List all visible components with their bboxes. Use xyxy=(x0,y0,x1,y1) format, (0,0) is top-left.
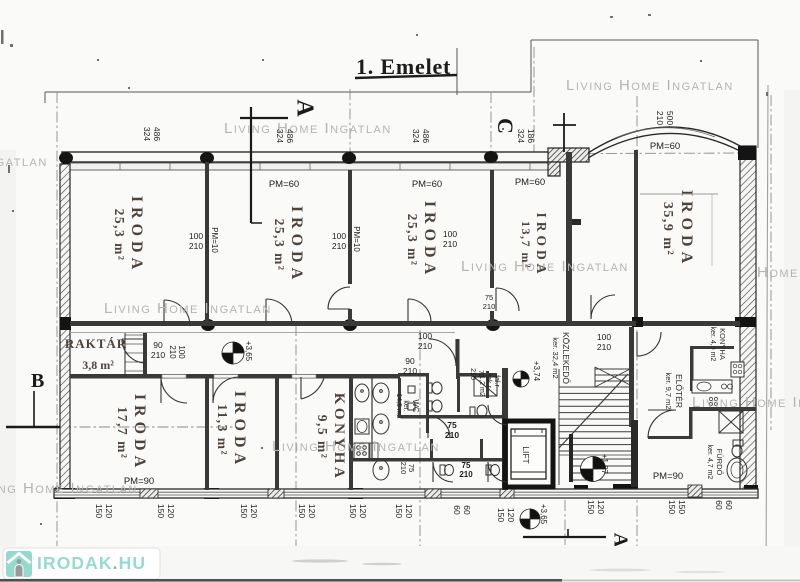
svg-text:210: 210 xyxy=(459,470,473,479)
svg-text:75: 75 xyxy=(485,293,493,302)
svg-text:ker.: ker. xyxy=(402,400,409,411)
svg-text:tak.r: tak.r xyxy=(485,374,492,388)
svg-text:486: 486 xyxy=(152,127,162,141)
svg-text:RAKTÁR: RAKTÁR xyxy=(65,336,127,351)
svg-text:486: 486 xyxy=(421,129,431,143)
svg-text:ker. 9,7 m2: ker. 9,7 m2 xyxy=(664,372,673,409)
svg-text:150: 150 xyxy=(348,504,358,518)
svg-text:210: 210 xyxy=(332,241,346,251)
svg-text:IRODA: IRODA xyxy=(128,196,145,274)
checkerboard survey points xyxy=(222,342,606,529)
svg-text:120: 120 xyxy=(307,504,317,518)
sanitary inner doors xyxy=(428,416,450,438)
svg-text:150: 150 xyxy=(239,504,249,518)
svg-text:Living Home Ingatlan: Living Home Ingatlan xyxy=(224,120,392,137)
small squares (bidet etc.) xyxy=(408,386,415,393)
svg-text:150: 150 xyxy=(496,508,506,522)
svg-text:100: 100 xyxy=(332,231,346,241)
svg-text:210: 210 xyxy=(168,345,177,359)
svg-text:210: 210 xyxy=(403,366,417,376)
svg-text:120: 120 xyxy=(166,504,176,518)
room4 door in partition xyxy=(496,288,519,311)
svg-text:Living Home Ingatlan: Living Home Ingatlan xyxy=(692,394,800,411)
svg-text:WC: WC xyxy=(411,399,420,413)
svg-text:IRODA: IRODA xyxy=(231,391,248,469)
logo icon xyxy=(6,551,32,577)
svg-text:FÜRDŐ: FÜRDŐ xyxy=(715,449,724,476)
rotated top pairs xyxy=(142,127,162,141)
svg-text:324: 324 xyxy=(275,129,285,143)
svg-text:LIFT: LIFT xyxy=(521,446,531,463)
bottom outer wall band with windows xyxy=(54,485,758,498)
partitions between upper rooms xyxy=(205,162,209,321)
svg-text:210: 210 xyxy=(151,350,165,360)
door in partition room2/3 xyxy=(328,287,350,309)
stairwell xyxy=(559,367,634,485)
room 17,7 door xyxy=(161,377,187,403)
svg-text:120: 120 xyxy=(404,504,414,518)
konyha door xyxy=(301,378,324,399)
svg-text:120: 120 xyxy=(358,504,368,518)
svg-text:60: 60 xyxy=(714,500,724,510)
svg-text:A: A xyxy=(609,533,631,548)
plot boundary lines xyxy=(45,40,758,148)
konyha 4,9 fixtures xyxy=(692,362,744,406)
level marks xyxy=(244,341,253,362)
svg-text:Home Ingatlan: Home Ingatlan xyxy=(757,264,800,281)
svg-text:PM=10: PM=10 xyxy=(210,227,219,253)
svg-text:150: 150 xyxy=(297,504,307,518)
svg-text:IRODA: IRODA xyxy=(131,394,148,472)
svg-text:C: C xyxy=(493,118,518,134)
raktar walls xyxy=(125,333,147,377)
sanitary block walls xyxy=(353,339,508,490)
svg-text:IRODA: IRODA xyxy=(678,190,695,268)
svg-text:PM=60: PM=60 xyxy=(515,177,545,188)
svg-text:PM=60: PM=60 xyxy=(412,179,442,190)
sanitary fixtures: sinks xyxy=(355,377,500,480)
svg-text:60: 60 xyxy=(724,500,734,510)
svg-text:100: 100 xyxy=(177,345,186,359)
footer bar xyxy=(0,546,800,582)
corridor to elotér door xyxy=(637,332,661,356)
right outer wall xyxy=(740,146,756,490)
svg-text:100: 100 xyxy=(443,229,457,239)
svg-text:fal.r: fal.r xyxy=(493,375,500,387)
top wall beam band xyxy=(62,152,549,170)
section markers xyxy=(6,107,606,537)
svg-text:210: 210 xyxy=(445,430,459,440)
svg-text:+3,74: +3,74 xyxy=(532,361,541,382)
title xyxy=(355,54,457,79)
svg-text:90: 90 xyxy=(405,356,415,366)
closet with diagonal xyxy=(474,377,497,396)
svg-text:25,3 m²: 25,3 m² xyxy=(112,209,127,262)
svg-text:A: A xyxy=(291,99,317,117)
svg-text:60: 60 xyxy=(452,505,462,515)
svg-text:Living Home Ingatlan: Living Home Ingatlan xyxy=(0,153,48,170)
svg-text:PM=60: PM=60 xyxy=(650,141,680,152)
svg-text:120: 120 xyxy=(249,504,259,518)
svg-text:9,5 m²: 9,5 m² xyxy=(315,415,330,460)
lower partitions xyxy=(205,378,209,490)
svg-text:25,3 m²: 25,3 m² xyxy=(405,214,420,267)
svg-text:500: 500 xyxy=(665,111,675,125)
left outer wall xyxy=(60,164,70,490)
svg-text:14,5 m2: 14,5 m2 xyxy=(395,393,402,418)
svg-text:150: 150 xyxy=(677,500,687,514)
svg-text:150: 150 xyxy=(94,504,104,518)
svg-text:+3,65: +3,65 xyxy=(539,504,548,525)
svg-text:150: 150 xyxy=(394,504,404,518)
svg-text:25,3 m²: 25,3 m² xyxy=(272,219,287,272)
svg-text:210: 210 xyxy=(189,241,203,251)
svg-text:KÖZLEKEDŐ: KÖZLEKEDŐ xyxy=(561,332,571,384)
svg-text:60: 60 xyxy=(462,505,472,515)
konyha 9,5 kitchen fixtures xyxy=(354,443,378,459)
svg-text:150: 150 xyxy=(667,500,677,514)
svg-text:Living Home Ingatlan: Living Home Ingatlan xyxy=(104,300,272,317)
toilets xyxy=(427,383,432,393)
svg-text:+3,65: +3,65 xyxy=(244,341,253,362)
svg-text:75: 75 xyxy=(462,461,471,470)
svg-text:KONYHA: KONYHA xyxy=(718,328,727,360)
svg-text:210: 210 xyxy=(655,111,665,125)
room1 corridor door xyxy=(164,300,190,326)
section letters xyxy=(31,99,631,547)
svg-text:Living Home Ingatlan: Living Home Ingatlan xyxy=(566,77,734,94)
svg-text:324: 324 xyxy=(142,127,152,141)
svg-text:KONYHA: KONYHA xyxy=(331,393,347,482)
room1 door to corridor xyxy=(266,299,292,325)
svg-text:ker. 4,7 m2: ker. 4,7 m2 xyxy=(706,445,713,480)
svg-text:ELŐTÉR: ELŐTÉR xyxy=(674,374,684,408)
svg-text:IRODA: IRODA xyxy=(421,201,438,279)
room3 door to corridor xyxy=(408,299,431,322)
svg-text:IRODA: IRODA xyxy=(534,212,549,277)
svg-text:PM=10: PM=10 xyxy=(352,226,361,252)
corridor south wall xyxy=(70,374,400,379)
room 11,3 door xyxy=(213,377,239,403)
svg-text:ker. 32,4 m2: ker. 32,4 m2 xyxy=(551,337,560,378)
svg-text:150: 150 xyxy=(586,500,596,514)
bottom scan edge xyxy=(0,579,562,582)
svg-text:3,8 m²: 3,8 m² xyxy=(82,358,114,372)
top wall hatched pier left of bay xyxy=(548,148,589,162)
svg-text:13,7 m²: 13,7 m² xyxy=(519,221,533,269)
elotér / konyha / fürdő walls xyxy=(648,346,756,439)
svg-text:210: 210 xyxy=(418,341,432,351)
door dims stacked xyxy=(189,231,203,251)
door arcs xyxy=(122,287,676,482)
svg-text:210: 210 xyxy=(597,342,611,352)
svg-text:210: 210 xyxy=(443,239,457,249)
svg-text:100: 100 xyxy=(597,332,611,342)
svg-text:B: B xyxy=(31,370,44,392)
svg-text:100: 100 xyxy=(189,231,203,241)
svg-text:120: 120 xyxy=(104,504,114,518)
right scan edge line xyxy=(766,85,768,582)
svg-text:90: 90 xyxy=(153,340,163,350)
door gaps over south wall xyxy=(162,375,316,379)
svg-text:120: 120 xyxy=(596,500,606,514)
corridor north wall xyxy=(70,321,636,326)
svg-text:ker. 4,9 m2: ker. 4,9 m2 xyxy=(709,327,716,362)
svg-text:PM=60: PM=60 xyxy=(269,179,299,190)
svg-text:+1,87: +1,87 xyxy=(600,454,609,475)
svg-text:IRODA: IRODA xyxy=(288,206,305,284)
svg-text:75: 75 xyxy=(447,420,457,430)
svg-text:Living Home Ingatlan: Living Home Ingatlan xyxy=(0,480,138,497)
svg-text:186: 186 xyxy=(526,129,536,143)
room labels rotated xyxy=(65,190,695,481)
raktar door xyxy=(122,339,146,363)
svg-text:11,3 m²: 11,3 m² xyxy=(215,404,230,456)
elotér to fürdő door xyxy=(648,410,676,438)
corridor to sanitary door xyxy=(429,339,456,366)
stair strip door xyxy=(591,295,615,319)
watermarks xyxy=(0,77,800,497)
small area labels rotated xyxy=(395,327,727,480)
svg-text:210: 210 xyxy=(469,368,476,380)
fürdő fixtures: shower, wc, sink xyxy=(719,411,747,482)
svg-text:210: 210 xyxy=(483,302,496,311)
svg-text:486: 486 xyxy=(285,129,295,143)
svg-text:150: 150 xyxy=(156,504,166,518)
svg-text:1,2 m2: 1,2 m2 xyxy=(478,375,485,397)
svg-text:Living Home Ingatlan: Living Home Ingatlan xyxy=(272,438,440,455)
svg-text:PM=90: PM=90 xyxy=(124,476,154,487)
svg-text:100: 100 xyxy=(418,331,432,341)
svg-text:IRODAK.HU: IRODAK.HU xyxy=(37,553,146,573)
bay window arc wall xyxy=(588,127,742,158)
svg-text:17,7 m²: 17,7 m² xyxy=(115,407,130,460)
svg-text:324: 324 xyxy=(516,129,526,143)
svg-text:35,9 m²: 35,9 m² xyxy=(660,202,675,256)
svg-text:120: 120 xyxy=(506,508,516,522)
dimension texts xyxy=(94,111,734,525)
bottom window dims rotated xyxy=(94,504,114,518)
lift shaft xyxy=(505,421,553,487)
svg-text:PM=90: PM=90 xyxy=(653,471,683,482)
svg-text:210: 210 xyxy=(399,462,408,475)
svg-text:324: 324 xyxy=(411,129,421,143)
column blocks (black) xyxy=(54,146,758,499)
